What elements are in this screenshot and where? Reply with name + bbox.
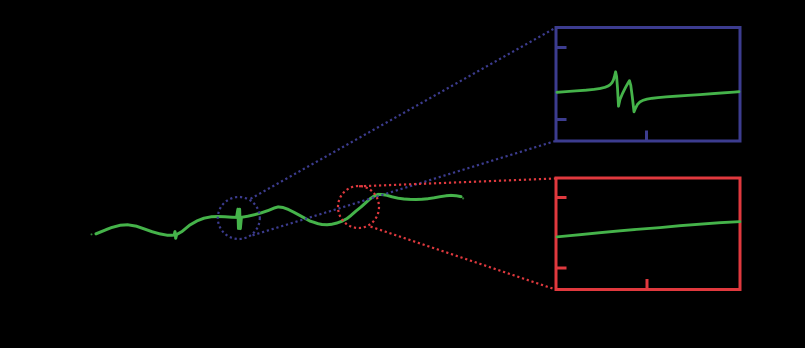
- red inset rising trace (green): [557, 222, 740, 237]
- red inset left tick upper: [556, 196, 567, 199]
- red zoom ellipse (dotted): [338, 186, 379, 228]
- red connector line bottom: [371, 227, 556, 290]
- blue zoom circle (dotted): [218, 197, 260, 239]
- red inset bottom tick: [646, 279, 649, 290]
- red connector line top: [359, 179, 556, 187]
- main signal trace (green): [96, 194, 461, 238]
- trace end marker dot: [462, 197, 464, 199]
- blue connector line bottom: [253, 141, 557, 236]
- blue inset left tick lower: [556, 118, 567, 121]
- blue inset box: [556, 28, 740, 142]
- red inset box: [556, 178, 740, 290]
- trace start marker dot: [91, 233, 93, 235]
- blue connector line top: [251, 28, 557, 199]
- blue inset bottom tick: [645, 131, 648, 142]
- blue inset left tick upper: [556, 46, 567, 49]
- blue inset glitch trace (green): [557, 72, 739, 112]
- red inset left tick lower: [556, 267, 567, 270]
